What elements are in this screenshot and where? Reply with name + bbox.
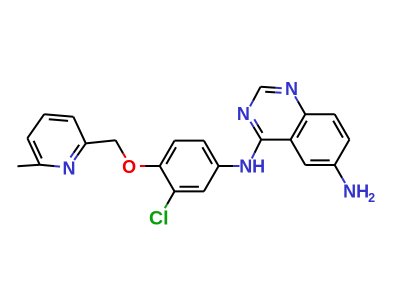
bond C4-NH — [255, 140, 262, 153]
bond C4'-O — [145, 165, 160, 167]
bond C5'=C6' — [175, 190, 204, 192]
bond C1'=C2' — [204, 141, 219, 166]
bond C7=C8 — [335, 114, 350, 139]
svg-text:N: N — [285, 79, 298, 99]
svg-text:N: N — [237, 104, 250, 124]
bond C6'-C1' — [204, 166, 219, 191]
bond C4a-C5 — [291, 140, 306, 165]
bond C2'-C3' — [175, 140, 204, 142]
bond C4py-C5py — [27, 114, 44, 138]
bond Npy=C2py — [74, 155, 77, 160]
bond C6-C7 — [335, 140, 350, 165]
bond C5'-Cl — [167, 191, 174, 204]
bond C3'=C4' — [160, 141, 175, 166]
bond C2py-C3py — [73, 117, 85, 144]
bond C5=C6 — [305, 164, 334, 166]
svg-text:Cl: Cl — [149, 208, 169, 230]
bond N1-C8a — [295, 96, 298, 101]
svg-text:O: O — [122, 157, 136, 177]
bond C4'-C5' — [160, 166, 175, 191]
bond CH2-C2py — [86, 140, 116, 143]
svg-text:N: N — [63, 158, 76, 178]
bond N3-C2 — [250, 101, 253, 107]
bond O-CH2 — [123, 153, 126, 158]
svg-text:NH: NH — [239, 157, 265, 177]
bond C6py-Npy — [40, 165, 55, 166]
bond C2=N1 — [261, 87, 276, 88]
bond N3=C4 — [254, 127, 262, 140]
bond C6-NH2 — [335, 165, 342, 178]
bond C4-C4a — [261, 139, 290, 141]
bond NH-C1' — [233, 165, 239, 167]
bond C8-C8a — [305, 113, 334, 115]
bond C3py=C4py — [44, 114, 73, 117]
bond C4a=C8a — [291, 114, 306, 139]
bond C6py-CH3 — [18, 165, 40, 166]
bond C5py=C6py — [27, 138, 39, 165]
